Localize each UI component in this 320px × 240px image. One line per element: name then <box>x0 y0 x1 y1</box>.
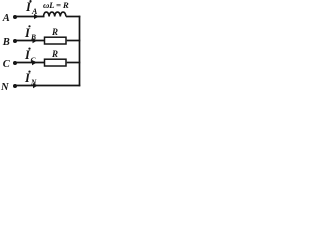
label IC <box>24 48 37 65</box>
svg-text:ωL = R: ωL = R <box>43 0 69 10</box>
svg-text:A: A <box>31 7 38 16</box>
node B <box>2 37 10 48</box>
current arrow IN <box>33 83 38 88</box>
node A <box>2 13 10 24</box>
current arrow IB <box>33 38 38 43</box>
resistor R (phase C) <box>45 59 67 66</box>
svg-text:N: N <box>30 78 37 87</box>
inductor L <box>44 12 66 16</box>
svg-text:A: A <box>2 13 10 24</box>
resistor R (phase B) <box>45 37 67 44</box>
value label R <box>51 49 58 59</box>
wire (right bus) <box>79 16 81 87</box>
value label R <box>51 27 58 37</box>
terminal N <box>13 84 17 88</box>
current arrow IC <box>32 60 37 65</box>
wire <box>16 85 80 87</box>
label IB <box>24 25 36 41</box>
wire <box>16 40 45 42</box>
terminal C <box>13 61 17 65</box>
svg-text:R: R <box>51 27 58 37</box>
value label wL=R <box>43 0 69 10</box>
wire <box>16 62 45 64</box>
terminal A <box>13 15 17 19</box>
svg-text:B: B <box>2 37 10 48</box>
wire <box>67 62 81 64</box>
node N <box>0 82 9 93</box>
current arrow IA <box>34 14 39 19</box>
node C <box>3 59 11 70</box>
svg-text:B: B <box>30 33 36 42</box>
wire <box>67 40 81 42</box>
wire <box>66 16 80 18</box>
label IA <box>25 0 38 16</box>
wire <box>16 16 45 18</box>
label IN <box>24 71 37 87</box>
svg-text:R: R <box>51 49 58 59</box>
svg-text:N: N <box>0 82 9 93</box>
terminal B <box>13 39 17 43</box>
svg-text:C: C <box>3 59 11 70</box>
